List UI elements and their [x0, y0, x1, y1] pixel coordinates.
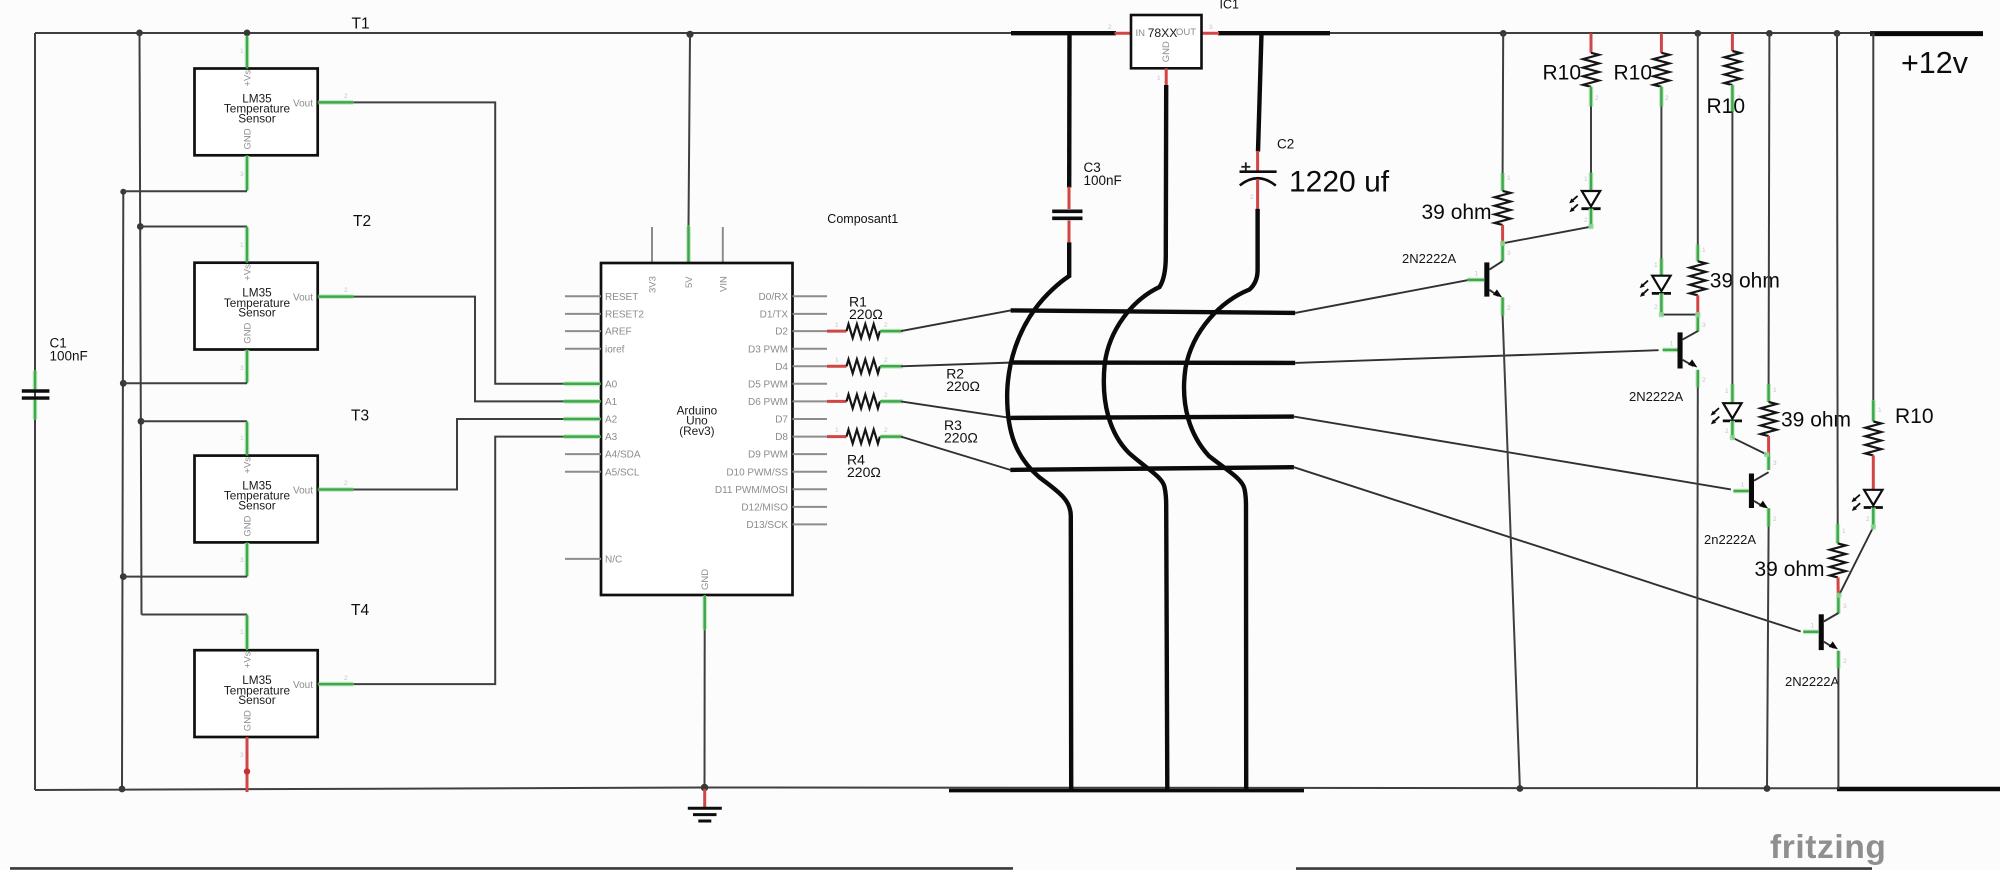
- svg-text:39 ohm: 39 ohm: [1781, 408, 1851, 431]
- transistor Q1 2N2222A emitter lead: [1489, 290, 1498, 296]
- wire T3 gnd to rail: [123, 576, 247, 578]
- node dot top bus x140: [136, 30, 143, 37]
- wire cable H3 thick: [1011, 417, 1294, 418]
- svg-text:2: 2: [884, 357, 888, 364]
- wire ch3 top feed: [1768, 33, 1771, 384]
- svg-text:T2: T2: [353, 213, 371, 230]
- LED1 anode pin green: [1584, 173, 1591, 192]
- svg-text:Vout: Vout: [293, 680, 313, 691]
- wire ch2 top feed: [1697, 33, 1699, 244]
- svg-text:A2: A2: [605, 415, 618, 426]
- wire H2 to Q2 base: [1295, 350, 1658, 363]
- svg-text:IN: IN: [1136, 28, 1146, 39]
- svg-text:2: 2: [1108, 24, 1112, 31]
- wire left rail vertical: [34, 33, 36, 790]
- svg-text:D4: D4: [775, 362, 788, 373]
- Arduino ioref pin stub: [565, 348, 601, 350]
- svg-text:(Rev3): (Rev3): [679, 424, 714, 438]
- transistor Q3 2n2222A emitter lead: [1754, 501, 1764, 507]
- svg-text:RESET: RESET: [605, 292, 638, 303]
- capacitor C2 curved plate: [1240, 178, 1276, 185]
- resistor R10 ch2 body: [1653, 53, 1669, 87]
- Arduino D pin stub under resistor: [793, 365, 828, 367]
- svg-text:78XX: 78XX: [1148, 26, 1178, 40]
- transistor Q3 2n2222A emitter arrow: [1759, 501, 1768, 509]
- svg-text:100nF: 100nF: [1084, 173, 1122, 188]
- resistor 39ohm ch3 pin2 red: [1767, 436, 1770, 454]
- transistor Q4 2N2222A emitter arrow: [1829, 641, 1838, 649]
- resistor R1 pin2 green: [880, 322, 903, 331]
- svg-text:GND: GND: [243, 128, 254, 149]
- transistor Q1 collector pin green: [1503, 243, 1511, 261]
- resistor R10 ch2 pin1 red: [1660, 33, 1663, 53]
- svg-text:2: 2: [1654, 304, 1658, 311]
- wire R10 ch1 to LED1: [1590, 107, 1592, 173]
- transistor Q3 emitter pin green: [1769, 508, 1777, 526]
- transistor Q1 2N2222A base pin green: [1467, 270, 1484, 280]
- transistor Q1 2N2222A bar: [1484, 262, 1489, 296]
- svg-text:IC1: IC1: [1220, 0, 1240, 12]
- resistor R10 ch3 body: [1724, 51, 1740, 85]
- svg-text:2: 2: [1665, 95, 1669, 102]
- LM35 sensor T4 box: [195, 650, 318, 737]
- resistor 39ohm ch2 body: [1690, 261, 1706, 295]
- svg-text:3V3: 3V3: [648, 276, 659, 293]
- regulator IC1 78XX box: [1131, 15, 1202, 68]
- transistor Q4 emitter pin green: [1838, 651, 1847, 669]
- wire T2 vs from rail: [140, 226, 247, 228]
- svg-text:2: 2: [1843, 658, 1847, 665]
- Arduino AREF pin stub: [565, 330, 601, 332]
- resistor R10 ch1 pin1 red: [1590, 33, 1593, 53]
- svg-text:fritzing: fritzing: [1770, 829, 1886, 866]
- Arduino D13 pin stub: [793, 523, 828, 525]
- svg-text:A0: A0: [605, 379, 618, 390]
- svg-text:2: 2: [1595, 95, 1599, 102]
- wire cable H4 thick: [1010, 467, 1294, 470]
- Arduino Uno U1 box: [601, 263, 793, 595]
- wire +Vs rail x140: [140, 33, 142, 615]
- svg-text:A4/SDA: A4/SDA: [605, 450, 641, 461]
- svg-text:3: 3: [1507, 250, 1511, 257]
- svg-text:220Ω: 220Ω: [847, 464, 881, 480]
- svg-text:3: 3: [240, 752, 244, 759]
- svg-text:ioref: ioref: [605, 344, 625, 355]
- T2 pin 1 +Vs green: [240, 227, 247, 263]
- transistor Q4 collector pin green: [1838, 595, 1847, 613]
- node dot x123 bottom: [119, 786, 126, 793]
- resistor R10 ch4 pin2 red + LED4 anode red: [1872, 455, 1875, 489]
- wire bottom ground bus thick overlay right: [1837, 787, 2000, 792]
- svg-text:GND: GND: [243, 710, 254, 731]
- LED3 anode pin green: [1725, 384, 1732, 403]
- svg-text:1: 1: [1741, 482, 1745, 489]
- capacitor C1 plates: [22, 391, 50, 398]
- transistor Q2 2N2222A bar: [1678, 332, 1683, 368]
- node dot top bus ch4: [1834, 30, 1841, 37]
- regulator IC1 pin 1 GND red: [1157, 68, 1166, 85]
- svg-text:D12/MISO: D12/MISO: [741, 503, 788, 514]
- capacitor C2 pin1 red: [1256, 151, 1259, 171]
- wire T3 vs from rail: [141, 420, 247, 422]
- wire cable H1 thick: [1011, 310, 1296, 313]
- LM35 sensor T1 box: [195, 69, 318, 156]
- svg-text:3: 3: [1702, 322, 1706, 329]
- wire H1 to Q1 base: [1295, 280, 1467, 313]
- wire R3 to cable H3: [901, 401, 1011, 418]
- ground symbol: [688, 808, 722, 821]
- Arduino D1/TX pin stub: [793, 313, 828, 315]
- svg-text:T3: T3: [351, 408, 369, 425]
- LED LED3 arrows: [1711, 408, 1720, 424]
- transistor Q3 2n2222A collector lead: [1754, 472, 1769, 481]
- wire cable H2 thick: [1013, 360, 1295, 365]
- wire LED1 to Q1 collector: [1503, 227, 1591, 244]
- transistor Q4 2N2222A emitter lead: [1824, 642, 1834, 648]
- svg-text:2: 2: [1584, 217, 1588, 224]
- svg-text:1: 1: [240, 242, 244, 249]
- svg-text:Sensor: Sensor: [238, 111, 275, 125]
- LED LED4 body: [1864, 490, 1883, 508]
- resistor 39ohm ch4 pin1 green: [1838, 524, 1846, 543]
- svg-text:D11 PWM/MOSI: D11 PWM/MOSI: [715, 485, 788, 496]
- regulator IC1 78XX pin 2 IN red: [1108, 24, 1131, 33]
- svg-text:Composant1: Composant1: [827, 212, 898, 226]
- wire bottom ground bus thick overlay center: [949, 789, 1304, 793]
- svg-text:Vout: Vout: [293, 293, 313, 304]
- svg-text:2n2222A: 2n2222A: [1704, 532, 1756, 547]
- wire top bus thick overlay left of IC1: [1011, 31, 1116, 35]
- svg-text:3: 3: [240, 557, 244, 564]
- resistor 39ohm ch1 pin1 green: [1503, 173, 1511, 191]
- svg-text:VIN: VIN: [718, 276, 729, 292]
- label C1 value: [50, 336, 88, 364]
- wire ch4 top feed: [1836, 33, 1839, 524]
- T2 pin 3 GND green: [240, 350, 247, 384]
- svg-text:2: 2: [1866, 516, 1870, 523]
- transistor Q3 collector pin green: [1769, 454, 1777, 470]
- LM35 sensor T2 box: [195, 263, 318, 350]
- wire Q3 emitter to ground bus: [1767, 526, 1769, 788]
- transistor Q1 emitter pin green: [1503, 297, 1511, 315]
- svg-text:2: 2: [344, 287, 348, 294]
- wire R10 ch3 to LED3: [1731, 112, 1733, 384]
- svg-text:+Vs: +Vs: [243, 264, 254, 281]
- svg-text:1: 1: [1475, 270, 1479, 277]
- T1 pin 2 Vout green: [318, 93, 354, 102]
- svg-text:T4: T4: [351, 602, 369, 619]
- label R2: [946, 366, 980, 395]
- resistor 39ohm ch2 pin2 red: [1696, 295, 1699, 314]
- capacitor C3 plates: [1052, 211, 1082, 218]
- Arduino D11 pin stub: [793, 488, 828, 490]
- node red dot T4 gnd: [244, 768, 250, 774]
- svg-text:220Ω: 220Ω: [946, 378, 980, 394]
- wire R2 to cable H2: [901, 363, 1013, 367]
- resistor R2 pin2 green: [880, 357, 903, 366]
- resistor R2 body: [847, 359, 880, 373]
- svg-text:D0/RX: D0/RX: [759, 292, 789, 303]
- transistor Q4 2N2222A collector lead: [1824, 613, 1839, 622]
- svg-text:D7: D7: [775, 415, 788, 426]
- LED1 cathode pin green: [1584, 209, 1591, 227]
- resistor 39ohm ch4 body: [1830, 543, 1846, 577]
- svg-text:1: 1: [835, 357, 839, 364]
- T4 pin 2 Vout green: [318, 675, 354, 684]
- svg-text:3: 3: [240, 365, 244, 372]
- LM35 sensor T3 box: [195, 456, 318, 543]
- svg-text:Vout: Vout: [293, 485, 313, 496]
- Arduino D12 pin stub: [793, 506, 828, 508]
- resistor R10 ch2 pin2 green: [1661, 87, 1669, 107]
- svg-text:5V: 5V: [684, 276, 695, 288]
- wire Q4 emitter to ground bus: [1837, 669, 1839, 790]
- resistor 39ohm ch1 body: [1495, 191, 1511, 225]
- Arduino GND pin green: [702, 595, 707, 631]
- wire T2 vout to A1: [354, 297, 565, 402]
- svg-text:2: 2: [1773, 516, 1777, 523]
- wire R1 to cable H1: [901, 310, 1011, 331]
- Arduino N/C pin stub: [565, 558, 601, 560]
- T4 pin 3 GND red unconnected: [240, 737, 247, 792]
- transistor Q1 2N2222A collector lead: [1489, 261, 1502, 270]
- LED2 anode pin green: [1654, 259, 1661, 276]
- LED LED2 body: [1652, 276, 1671, 294]
- resistor R4 pin2 green: [880, 427, 903, 437]
- svg-text:C2: C2: [1277, 137, 1294, 152]
- Arduino A3 pin green: [563, 434, 601, 439]
- wire Q1 emitter to ground bus: [1503, 316, 1520, 789]
- wire top +V bus: [35, 32, 1871, 34]
- Arduino D0/RX pin stub: [793, 295, 828, 297]
- svg-text:1: 1: [835, 392, 839, 399]
- svg-text:2N2222A: 2N2222A: [1629, 389, 1684, 404]
- Arduino 5V pin green: [686, 225, 691, 263]
- svg-text:D1/TX: D1/TX: [760, 310, 789, 321]
- Arduino VIN pin stub: [722, 227, 724, 263]
- svg-text:2N2222A: 2N2222A: [1402, 251, 1457, 266]
- resistor 39ohm ch3 pin1 green: [1769, 384, 1777, 402]
- node dot top bus 5V feed: [686, 31, 693, 38]
- svg-text:2: 2: [1250, 194, 1254, 201]
- svg-text:GND: GND: [243, 515, 254, 536]
- transistor Q2 emitter pin green: [1698, 370, 1706, 388]
- node dot x140 T3 vs: [138, 418, 145, 425]
- node dot x140 T2 vs: [137, 223, 144, 230]
- svg-text:GND: GND: [243, 322, 254, 343]
- ground symbol stem red: [703, 789, 706, 807]
- T3 pin 1 +Vs green: [240, 421, 247, 455]
- Arduino A4/SDA pin stub: [565, 453, 601, 455]
- resistor R10 ch1 pin2 green: [1591, 87, 1599, 107]
- resistor 39ohm ch3 body: [1761, 402, 1777, 436]
- wire T1 vout to A0: [354, 102, 565, 383]
- svg-text:D13/SCK: D13/SCK: [746, 520, 788, 531]
- svg-text:2: 2: [1702, 377, 1706, 384]
- svg-text:220Ω: 220Ω: [849, 306, 883, 322]
- resistor R2 pin1 red: [827, 357, 847, 366]
- node dot top bus ch3: [1766, 30, 1773, 37]
- resistor R4 pin1 red: [827, 427, 847, 437]
- svg-text:3: 3: [240, 171, 244, 178]
- wire GND rail x123: [122, 192, 123, 789]
- svg-text:2: 2: [344, 675, 348, 682]
- resistor R3 pin1 red: [827, 392, 847, 401]
- resistor R10 ch4 pin1 green: [1873, 400, 1882, 421]
- node dot top bus ch1: [1500, 30, 1507, 37]
- svg-text:D3 PWM: D3 PWM: [748, 344, 788, 355]
- svg-text:100nF: 100nF: [50, 349, 88, 364]
- svg-text:2: 2: [1507, 305, 1511, 312]
- svg-text:Sensor: Sensor: [238, 693, 275, 707]
- wire thick C2 top feed: [1258, 33, 1262, 152]
- LED LED4 arrows: [1852, 495, 1861, 511]
- svg-text:39 ohm: 39 ohm: [1422, 201, 1492, 224]
- T1 pin 1 +Vs green: [240, 36, 247, 69]
- capacitor C2 top plate: [1240, 170, 1277, 173]
- svg-text:1: 1: [1702, 247, 1706, 254]
- wire cable curve 2 from IC1 gnd to ground bus: [1104, 85, 1167, 790]
- svg-text:+Vs: +Vs: [243, 70, 254, 87]
- svg-text:2: 2: [884, 322, 888, 329]
- svg-text:1: 1: [240, 435, 244, 442]
- node dot ch1 ground: [1517, 785, 1524, 792]
- resistor R3 pin2 green: [880, 392, 903, 401]
- wire LED3 to Q3 collector: [1732, 438, 1766, 455]
- wire T1 gnd to rail: [123, 190, 247, 192]
- svg-text:N/C: N/C: [605, 555, 622, 566]
- wire cable curve 3 from C2 to ground bus: [1184, 209, 1258, 790]
- svg-text:2: 2: [884, 427, 888, 434]
- wire 5V feed from top bus: [689, 35, 691, 226]
- transistor Q3 2n2222A base pin green: [1733, 482, 1749, 492]
- Arduino A1 pin green: [563, 399, 601, 404]
- transistor Q2 2N2222A emitter lead: [1683, 360, 1694, 366]
- svg-text:1220 uf: 1220 uf: [1289, 166, 1390, 199]
- resistor 39ohm ch1 pin2 red + Q1 collector red: [1501, 225, 1504, 243]
- node dot gnd junction: [701, 784, 709, 792]
- resistor R3 body: [847, 394, 880, 408]
- Arduino D5 pin stub: [793, 383, 828, 385]
- wire top bus thick overlay right of IC1: [1218, 31, 1330, 35]
- svg-text:1: 1: [1507, 175, 1511, 182]
- Arduino D9 pin stub: [793, 453, 828, 455]
- svg-text:3: 3: [1773, 460, 1777, 467]
- svg-text:R10: R10: [1707, 95, 1746, 118]
- T3 pin 3 GND green: [240, 542, 247, 576]
- svg-text:1: 1: [835, 427, 839, 434]
- svg-text:3: 3: [1843, 603, 1847, 610]
- svg-text:Sensor: Sensor: [238, 306, 275, 320]
- green junction glows: [1500, 224, 1876, 598]
- T4 pin 1 +Vs green: [240, 615, 247, 651]
- T3 pin 2 Vout green: [318, 480, 354, 490]
- wire cable curve 1 from C3 to ground bus: [1007, 242, 1071, 790]
- svg-text:1: 1: [1584, 176, 1588, 183]
- svg-text:1: 1: [1725, 388, 1729, 395]
- wire R10 ch2 to LED2: [1660, 107, 1662, 259]
- wire T2 gnd to rail: [123, 382, 247, 384]
- transistor Q3 2n2222A bar: [1749, 474, 1754, 509]
- svg-text:D2: D2: [775, 327, 788, 338]
- svg-text:A3: A3: [605, 432, 618, 443]
- wire T4 vs from rail: [142, 614, 248, 616]
- svg-text:1: 1: [1654, 262, 1658, 269]
- wire thick C3 top feed: [1067, 33, 1072, 188]
- svg-text:D8: D8: [775, 432, 788, 443]
- Arduino RESET2 pin stub: [565, 313, 601, 315]
- svg-text:2N2222A: 2N2222A: [1785, 674, 1840, 689]
- svg-text:3: 3: [1209, 24, 1213, 31]
- resistor R1 body: [847, 324, 880, 338]
- Arduino A2 pin green: [563, 417, 601, 422]
- svg-text:1: 1: [1878, 407, 1882, 414]
- wire R10 ch4 top feed: [1872, 34, 1874, 400]
- svg-text:1: 1: [835, 322, 839, 329]
- wire LED2 jog to ch2 column: [1661, 314, 1697, 316]
- capacitor C1 pin 1 green: [33, 370, 38, 389]
- svg-text:2: 2: [884, 392, 888, 399]
- transistor Q2 2N2222A collector lead: [1683, 331, 1698, 340]
- svg-text:+Vs: +Vs: [243, 457, 254, 474]
- LED LED1 arrows: [1569, 196, 1578, 212]
- wire ch1 top feed: [1502, 33, 1505, 173]
- wire Q2 emitter to ground bus: [1696, 387, 1699, 788]
- bottom page border line right: [1296, 867, 1872, 870]
- regulator IC1 78XX pin 3 OUT red: [1201, 24, 1219, 33]
- wire T3 vout to A2: [354, 419, 565, 490]
- svg-text:Vout: Vout: [293, 98, 313, 109]
- label C3 value: [1084, 160, 1122, 188]
- Arduino D pin stub under resistor: [793, 400, 828, 402]
- svg-text:2: 2: [344, 93, 348, 100]
- capacitor C3 pin2 red: [1068, 221, 1071, 243]
- svg-text:D9 PWM: D9 PWM: [748, 450, 788, 461]
- transistor Q4 2N2222A base pin green: [1803, 622, 1819, 632]
- transistor Q4 2N2222A bar: [1819, 614, 1824, 650]
- resistor R10 ch3 pin2 green: [1732, 85, 1741, 112]
- LED LED2 arrows: [1640, 281, 1649, 297]
- svg-text:1: 1: [240, 48, 244, 55]
- capacitor C1 pin 2 green: [33, 400, 38, 420]
- Arduino D pin stub under resistor: [793, 330, 828, 332]
- svg-text:AREF: AREF: [605, 327, 632, 338]
- svg-text:R10: R10: [1895, 405, 1934, 428]
- capacitor C3 pin1 red: [1068, 187, 1071, 209]
- wire H3 to Q3 base: [1294, 417, 1731, 490]
- node dot x123 T2 gnd: [120, 380, 127, 387]
- resistor R10 ch4 body: [1865, 421, 1881, 455]
- node dot x123 T1 gnd corner: [120, 189, 126, 195]
- Arduino A0 pin green: [563, 381, 601, 386]
- svg-text:R10: R10: [1543, 62, 1582, 85]
- Arduino RESET pin stub: [565, 295, 601, 297]
- wire Arduino gnd to bus: [704, 631, 706, 788]
- svg-text:1: 1: [1810, 622, 1814, 629]
- svg-text:OUT: OUT: [1176, 27, 1196, 38]
- LED LED3 body: [1723, 403, 1742, 421]
- label R1: [849, 294, 883, 323]
- transistor Q2 2N2222A emitter arrow: [1688, 359, 1697, 367]
- svg-text:39 ohm: 39 ohm: [1755, 558, 1825, 581]
- Arduino D10 pin stub: [793, 471, 828, 473]
- resistor 39ohm ch4 pin2 red: [1837, 577, 1840, 595]
- +12v supply thick line: [1871, 31, 1984, 36]
- svg-text:1: 1: [1842, 528, 1846, 535]
- label R4: [847, 452, 881, 481]
- resistor R10 ch1 body: [1583, 53, 1599, 87]
- wire T4 vout to A3: [354, 437, 565, 684]
